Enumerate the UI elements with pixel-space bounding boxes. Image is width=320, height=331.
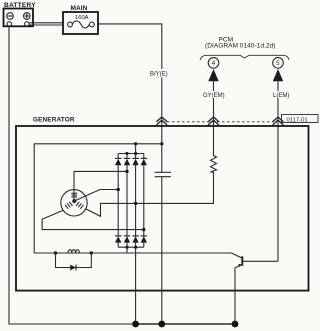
svg-text:L(EM): L(EM) <box>273 93 289 99</box>
flyback diode D9 <box>70 265 76 271</box>
wire col1 middle <box>117 165 119 236</box>
node B+ junction dot on bus link <box>134 142 137 145</box>
node field dot right <box>90 251 93 254</box>
capacitor C plates <box>155 172 171 176</box>
svg-text:GENERATOR: GENERATOR <box>33 116 75 123</box>
wire col3 middle <box>135 165 137 236</box>
node bottom bus dot col3 <box>134 246 137 249</box>
generator box <box>16 126 309 291</box>
wire B+ vertical below label to capacitor <box>161 78 163 173</box>
fuse MAIN 160A box <box>63 12 98 34</box>
harness dashed line <box>167 121 273 123</box>
wire col4 middle <box>143 165 145 236</box>
stator winding circle <box>61 190 87 216</box>
battery negative symbol <box>7 13 14 20</box>
reference box 0117-01 <box>282 115 319 124</box>
stator coil top <box>71 193 77 197</box>
flyback diode branch wires <box>56 253 92 268</box>
battery negative terminal <box>7 22 11 26</box>
diode D1 top col1 <box>115 154 121 166</box>
node top bus dot col2 <box>125 152 128 155</box>
diode D5 bottom col1 <box>115 236 121 247</box>
battery positive symbol <box>24 13 31 20</box>
wire col3 to ground bus <box>135 247 137 324</box>
node bottom bus dot col2 <box>125 246 128 249</box>
transistor Q1 emitter <box>235 264 242 324</box>
svg-text:(DIAGRAM 0140-1d.2d): (DIAGRAM 0140-1d.2d) <box>205 43 275 50</box>
node top bus dot col3 <box>134 152 137 155</box>
diode D4 top col4 <box>141 154 147 166</box>
wire col2 middle <box>126 165 128 236</box>
stator coil lower-right <box>76 202 83 209</box>
wire battery positive to main fuse (double line) <box>29 22 63 24</box>
resistor R (regulator sense) <box>211 155 217 174</box>
transistor Q1 base wire <box>243 260 279 262</box>
wire col2 stub to field line <box>126 247 128 253</box>
transistor Q1 bar <box>241 256 243 266</box>
diode D2 top col2 <box>124 154 130 166</box>
terminal arrow under pin 5 <box>273 69 283 81</box>
wire phase lead to col2 <box>74 171 127 201</box>
ground bus dots <box>132 321 139 328</box>
diode D3 top col3 <box>132 154 138 166</box>
terminal arrow under pin 4 <box>208 69 218 81</box>
wire battery negative to ground bus <box>9 26 136 324</box>
svg-text:4: 4 <box>212 61 216 67</box>
crossing marker on L(EM) wire <box>273 117 284 125</box>
node B+ junction dot at main vertical <box>160 142 163 145</box>
wire rectifier positive riser <box>135 144 137 154</box>
stator star point <box>72 199 76 203</box>
PCM connector pin 5 <box>273 58 284 69</box>
diode D7 bottom col3 <box>132 236 138 247</box>
wire phase lead to col3 and resistor <box>85 174 213 217</box>
wire GY(EM) lower segment to resistor <box>213 98 215 155</box>
diode D8 bottom col4 <box>141 236 147 247</box>
stator coil lower-left <box>65 202 72 209</box>
PCM connector pin 4 <box>208 58 219 69</box>
wire phase lead to col4 <box>42 210 144 229</box>
fuse element symbol <box>68 21 95 28</box>
rectifier top bus <box>118 153 144 155</box>
battery B1 box <box>4 9 34 27</box>
transistor Q1 emitter arrow <box>238 264 241 267</box>
ground bus thick segment <box>136 323 235 325</box>
node phase dot col1 <box>117 188 120 191</box>
node field dot left <box>54 251 57 254</box>
wire phase lead to col1 <box>74 190 118 202</box>
rectifier bottom bus <box>118 246 144 248</box>
wire capacitor to ground bus <box>161 177 163 324</box>
svg-text:160A: 160A <box>75 15 89 21</box>
crossing marker on GY(EM) wire <box>208 117 219 125</box>
wire field line and transistor collector <box>34 253 242 258</box>
node phase dot col3 <box>134 202 137 205</box>
svg-text:B/Y(E): B/Y(E) <box>150 72 168 78</box>
field winding coil <box>68 250 79 253</box>
wire B+ top line to field circuit <box>34 144 162 253</box>
battery positive terminal <box>25 22 29 26</box>
PCM brace <box>200 55 289 60</box>
svg-text:5: 5 <box>276 61 280 67</box>
diode D6 bottom col2 <box>124 236 130 247</box>
svg-text:MAIN: MAIN <box>71 5 88 12</box>
crossing marker on B+ wire <box>156 117 167 125</box>
wire fuse to B+ vertical <box>98 24 162 69</box>
svg-text:0117-01: 0117-01 <box>287 117 308 123</box>
wire L(EM) upper segment <box>277 81 279 91</box>
node phase dot col2 <box>125 170 128 173</box>
wire L(EM) lower segment to transistor base <box>277 98 279 261</box>
node phase dot col4 <box>142 228 145 231</box>
wire GY(EM) upper segment <box>213 81 215 91</box>
